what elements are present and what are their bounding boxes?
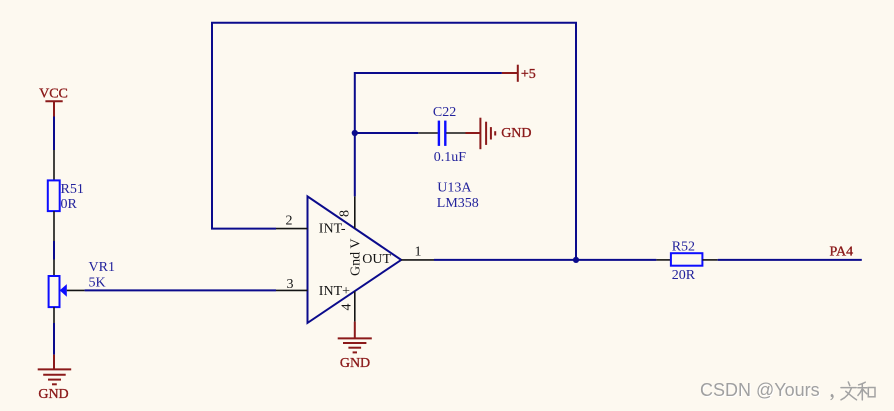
op-amp U13A bbox=[308, 196, 402, 323]
svg-text:VCC: VCC bbox=[39, 87, 68, 102]
wire VCC to R51 bbox=[53, 117, 55, 151]
svg-text:+5: +5 bbox=[521, 67, 536, 82]
wire pin8 up and right to +5 bbox=[355, 73, 502, 196]
svg-text:4: 4 bbox=[339, 304, 354, 311]
ground GND (left) bbox=[38, 355, 71, 403]
pin 1 bbox=[401, 259, 434, 261]
wire VR1 to GND bbox=[53, 323, 55, 355]
svg-text:OUT: OUT bbox=[362, 252, 391, 267]
svg-text:GND: GND bbox=[38, 387, 68, 402]
power port VCC bbox=[39, 87, 68, 117]
svg-text:20R: 20R bbox=[672, 268, 696, 283]
svg-text:3: 3 bbox=[287, 277, 294, 292]
junction on pin8 wire bbox=[352, 130, 358, 136]
svg-text:GND: GND bbox=[340, 356, 370, 371]
svg-text:VR1: VR1 bbox=[89, 260, 115, 275]
capacitor C22 bbox=[418, 121, 465, 146]
svg-text:1: 1 bbox=[415, 245, 422, 260]
svg-text:U13A: U13A bbox=[437, 180, 472, 195]
svg-text:R51: R51 bbox=[61, 182, 84, 197]
wire R51 to VR1 bbox=[53, 241, 55, 260]
svg-text:LM358: LM358 bbox=[437, 196, 479, 211]
ground GND (op-amp pin 4) bbox=[338, 322, 372, 371]
svg-text:5K: 5K bbox=[89, 276, 106, 291]
pin 3 bbox=[276, 289, 308, 291]
watermark glyph 和 bbox=[858, 382, 875, 400]
wire VR1 wiper to op-amp pin 3 bbox=[85, 289, 276, 291]
ground GND (right of C22, rotated) bbox=[466, 118, 532, 150]
wire feedback loop: pin2 left, up, across top, down to output bbox=[212, 23, 576, 260]
svg-text:8: 8 bbox=[337, 210, 352, 217]
svg-text:INT+: INT+ bbox=[319, 284, 350, 299]
svg-text:INT-: INT- bbox=[319, 222, 346, 237]
svg-text:CSDN @Yours: CSDN @Yours bbox=[700, 380, 820, 400]
resistor R51 bbox=[48, 150, 60, 241]
svg-text:0.1uF: 0.1uF bbox=[434, 150, 467, 165]
resistor R52 bbox=[656, 253, 717, 266]
svg-text:PA4: PA4 bbox=[830, 244, 854, 259]
svg-text:R52: R52 bbox=[672, 240, 695, 255]
svg-text:Gnd V: Gnd V bbox=[348, 238, 363, 275]
watermark glyph 文 bbox=[841, 382, 857, 400]
svg-text:GND: GND bbox=[501, 126, 531, 141]
pin 4 bbox=[354, 291, 356, 321]
potentiometer VR1 bbox=[49, 260, 85, 324]
svg-text:0R: 0R bbox=[61, 197, 78, 212]
junction output/feedback bbox=[573, 257, 579, 263]
svg-text:C22: C22 bbox=[433, 105, 456, 120]
wire R52 to PA4 bbox=[718, 259, 862, 261]
svg-text:2: 2 bbox=[286, 214, 293, 229]
watermark CSDN bbox=[700, 380, 834, 401]
pin 2 bbox=[276, 228, 308, 230]
power port +5 bbox=[502, 65, 536, 82]
pin 8 bbox=[354, 196, 356, 228]
wire op-amp output to R52 bbox=[434, 259, 656, 261]
wire junction to C22 bbox=[355, 132, 419, 134]
